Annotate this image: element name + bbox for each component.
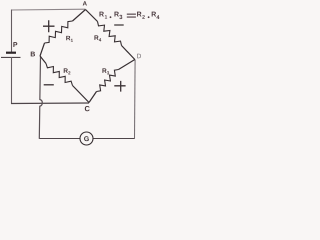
label R3 (102, 68, 109, 74)
wire arm B-C upper (40, 56, 46, 64)
node label A (83, 1, 87, 5)
wire bottom horizontal (battery to node C) (11, 102, 89, 105)
battery P top plate (6, 52, 16, 54)
wire arm B-C lower to node C (73, 86, 90, 103)
wire node B to galvanometer with hop over battery wire (39, 56, 42, 139)
wire right vertical (node D to galvanometer) (134, 60, 137, 139)
plus sign polarity near R1 (43, 20, 55, 32)
galvanometer G letter (84, 136, 89, 141)
wire arm A-B lower to node B (40, 43, 45, 56)
node label B (31, 52, 35, 57)
wire left vertical lower (battery to bottom corner) (11, 57, 13, 104)
resistor R3 zigzag (97, 70, 119, 92)
wire arm A-D upper (86, 10, 98, 22)
wire top horizontal (battery to node A) (11, 8, 86, 11)
wire arm A-B upper (73, 10, 86, 22)
minus sign polarity near R2 (44, 84, 54, 86)
wire arm C-D lower (89, 92, 97, 103)
galvanometer G circle (80, 132, 93, 145)
wire galvanometer left (39, 138, 80, 140)
battery P bottom plate (1, 56, 21, 58)
battery label P (13, 42, 17, 47)
node label D (137, 54, 141, 58)
wire left vertical upper (corner to battery) (11, 10, 13, 53)
resistor R4 zigzag (98, 22, 122, 46)
equation R1 . R3 = R2 . R4 (99, 12, 159, 19)
label R1 (66, 36, 73, 42)
minus sign polarity near R4 (114, 24, 124, 26)
wire galvanometer right (93, 138, 135, 140)
label R4 (94, 35, 101, 41)
plus sign polarity near R3 (114, 81, 125, 92)
wire arm A-D lower to node D (122, 46, 135, 60)
node label C (85, 106, 90, 111)
wire arm C-D upper to node D (119, 60, 135, 70)
resistor R2 zigzag (46, 64, 73, 86)
resistor R1 zigzag (45, 21, 73, 43)
label R2 (64, 68, 71, 74)
